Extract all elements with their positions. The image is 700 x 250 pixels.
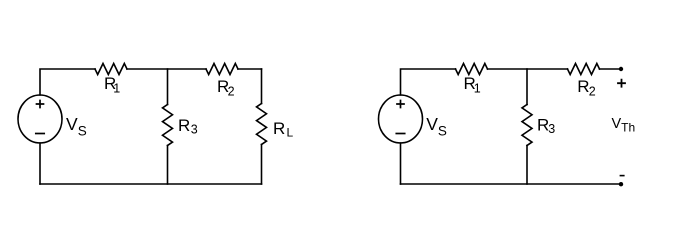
voltage source VS ellipse (right circuit) (379, 95, 423, 143)
wire: left rail lower segment source to bottom (left circuit) (39, 143, 41, 184)
resistor RL (left circuit) (257, 104, 267, 145)
wire: top rail between R1 and R2 (right circuit) (488, 68, 568, 70)
wire: left rail and top rail to R1 (right circuit) (401, 69, 456, 95)
wire: middle branch lower segment from R3 to bottom rail (right circuit) (526, 146, 528, 185)
plus sign at positive output terminal (right circuit) (618, 80, 625, 87)
resistor R2 (left circuit) (206, 64, 238, 75)
wire: middle branch lower segment from R3 to bottom rail (left circuit) (167, 146, 169, 185)
wire: top rail from R2 to right branch corner (left circuit) (238, 68, 262, 70)
resistor R1 (left circuit) (95, 64, 127, 75)
wire: right branch upper segment to RL (left circuit) (261, 69, 263, 104)
resistor R3 (left circuit) (163, 105, 173, 146)
node: negative output terminal dot (right circuit) (619, 182, 623, 186)
wire: middle branch upper segment to R3 (left circuit) (167, 69, 169, 105)
voltage source VS ellipse (left circuit) (18, 95, 62, 143)
resistor R1 (right circuit) (456, 64, 488, 75)
wire: top rail between R1 and R2 (left circuit) (127, 68, 206, 70)
wire: bottom rail (left circuit) (40, 183, 262, 185)
plus sign inside source (right circuit) (397, 101, 404, 108)
resistor R2 (right circuit) (568, 64, 600, 75)
wire: left rail lower segment source to bottom (right circuit) (400, 143, 402, 184)
wire: right branch lower segment from RL to bottom rail (left circuit) (261, 145, 263, 185)
minus sign at negative output terminal (right circuit) (620, 175, 623, 177)
resistor R3 (right circuit) (522, 105, 532, 146)
node: positive output terminal dot (right circuit) (619, 67, 623, 71)
wire: top rail from R2 to positive terminal (right circuit) (600, 68, 622, 70)
minus sign inside source (right circuit) (396, 133, 404, 135)
wire: left circuit top rail segment from source to R1 (40, 69, 95, 95)
minus sign inside source (left circuit) (36, 133, 44, 135)
plus sign inside source (left circuit) (37, 101, 44, 108)
wire: bottom rail to negative terminal (right circuit) (401, 183, 622, 185)
wire: middle branch upper segment to R3 (right circuit) (526, 69, 528, 105)
